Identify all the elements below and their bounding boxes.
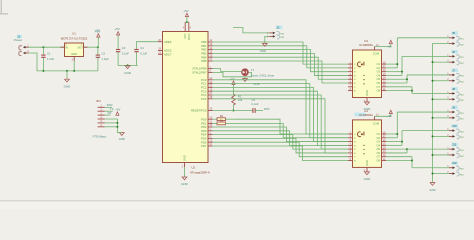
svg-text:R4: R4: [220, 114, 224, 118]
svg-text:Cstce_G415_5mar: Cstce_G415_5mar: [251, 73, 275, 77]
svg-text:AVCC: AVCC: [188, 33, 191, 40]
svg-text:O7: O7: [377, 155, 381, 159]
svg-text:O6: O6: [377, 151, 381, 155]
svg-text:GND: GND: [119, 137, 125, 141]
svg-text:O3: O3: [377, 140, 381, 144]
svg-text:MCP1727-5.0,TO252: MCP1727-5.0,TO252: [61, 37, 88, 41]
svg-text:C2: C2: [102, 52, 106, 56]
svg-text:O2: O2: [377, 136, 381, 140]
svg-text:Y1: Y1: [251, 68, 255, 72]
svg-text:COM: COM: [373, 52, 379, 56]
svg-text:1.0uF: 1.0uF: [102, 57, 109, 61]
svg-text:GND: GND: [71, 52, 77, 56]
svg-text:0.1uF: 0.1uF: [122, 51, 129, 55]
svg-text:J6: J6: [452, 50, 455, 54]
svg-text:O6: O6: [377, 81, 381, 85]
svg-text:GND: GND: [364, 177, 372, 181]
svg-text:DTR: DTR: [264, 107, 270, 111]
svg-text:JP1: JP1: [96, 99, 101, 103]
svg-text:GND: GND: [429, 188, 435, 192]
svg-text:O8: O8: [377, 159, 381, 163]
svg-text:U2: U2: [192, 166, 196, 170]
svg-text:FTDI Basic: FTDI Basic: [93, 134, 107, 138]
svg-text:O4: O4: [377, 73, 381, 77]
svg-text:PC5: PC5: [201, 97, 207, 101]
svg-text:O1: O1: [377, 132, 381, 136]
svg-text:O5: O5: [377, 147, 381, 151]
svg-text:GND: GND: [183, 155, 187, 161]
svg-text:+5V: +5V: [183, 9, 188, 13]
svg-text:0.1uF: 0.1uF: [252, 102, 259, 106]
svg-text:COM: COM: [373, 121, 379, 125]
svg-text:ADC7: ADC7: [164, 52, 172, 56]
svg-text:XTAL2/PB7: XTAL2/PB7: [192, 71, 207, 75]
svg-text:J12: J12: [452, 161, 457, 165]
svg-text:+5v: +5v: [387, 114, 392, 118]
svg-text:J11: J11: [452, 143, 457, 147]
svg-text:+5v: +5v: [387, 44, 392, 48]
svg-text:J2: J2: [276, 26, 279, 30]
svg-text:O8: O8: [377, 89, 381, 93]
svg-text:J8: J8: [452, 87, 455, 91]
svg-text:O1: O1: [377, 62, 381, 66]
svg-text:ATmega328P-A: ATmega328P-A: [190, 171, 210, 175]
svg-text:U1: U1: [72, 32, 76, 36]
svg-text:J9: J9: [452, 105, 455, 109]
svg-text:J7: J7: [452, 68, 455, 72]
svg-text:+5V: +5V: [115, 108, 120, 112]
svg-text:1.0uF: 1.0uF: [47, 57, 54, 61]
svg-text:+5V: +5V: [230, 77, 235, 81]
svg-text:GND: GND: [260, 49, 266, 53]
svg-text:Power: Power: [14, 38, 23, 42]
svg-text:C1: C1: [47, 52, 51, 56]
svg-text:ULN2803A: ULN2803A: [359, 43, 373, 47]
svg-text:J5: J5: [452, 31, 455, 35]
svg-text:C4: C4: [140, 46, 144, 50]
svg-text:GND: GND: [365, 160, 369, 166]
svg-text:O7: O7: [377, 85, 381, 89]
svg-text:C3: C3: [122, 46, 126, 50]
svg-text:O3: O3: [377, 70, 381, 74]
svg-text:VCC: VCC: [184, 33, 187, 38]
svg-text:GND: GND: [64, 84, 72, 88]
svg-text:+5V: +5V: [95, 29, 100, 33]
svg-text:PD7: PD7: [201, 144, 207, 148]
svg-text:AREF: AREF: [164, 40, 172, 44]
svg-text:J10: J10: [452, 124, 457, 128]
svg-text:+5V: +5V: [114, 27, 119, 31]
svg-text:PB5: PB5: [201, 59, 207, 63]
svg-text:0.1uF: 0.1uF: [140, 51, 147, 55]
svg-text:O4: O4: [377, 143, 381, 147]
svg-text:RESET/PC6: RESET/PC6: [191, 109, 207, 113]
svg-text:O2: O2: [377, 66, 381, 70]
svg-text:O5: O5: [377, 77, 381, 81]
svg-text:GND: GND: [124, 71, 132, 75]
svg-text:GND: GND: [181, 182, 189, 186]
svg-text:RX: RX: [108, 111, 112, 115]
svg-text:ULN2803A: ULN2803A: [359, 113, 373, 117]
svg-text:GND: GND: [365, 90, 369, 96]
